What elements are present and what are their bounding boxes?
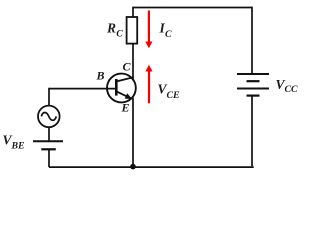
- battery VCC short plate 1: [247, 80, 260, 82]
- transistor Q1 emitter arrowhead: [125, 93, 133, 99]
- wire top horizontal: [133, 7, 252, 9]
- svg-text:C: C: [123, 60, 132, 74]
- AC source V1 circle: [38, 106, 60, 128]
- battery VCC short plate 2: [247, 94, 260, 96]
- junction dot: [130, 164, 136, 170]
- arrow IC (red, down): [148, 11, 150, 43]
- wire right lower vertical: [251, 96, 253, 167]
- battery VBE short plate: [41, 148, 56, 150]
- transistor Q1 collector stroke: [117, 77, 134, 81]
- wire right upper vertical: [251, 7, 253, 74]
- svg-text:C: C: [116, 29, 123, 40]
- wire left lower vertical: [48, 149, 50, 167]
- transistor Q1 emitter stroke: [117, 92, 132, 99]
- wire left mid vertical: [48, 127, 50, 141]
- resistor RC: [127, 17, 138, 44]
- svg-text:C: C: [165, 29, 172, 40]
- wire base horizontal: [49, 88, 117, 90]
- svg-text:CC: CC: [285, 84, 299, 95]
- svg-text:B: B: [96, 69, 105, 83]
- battery VCC long plate 2: [237, 88, 269, 90]
- transistor Q1 base bar: [115, 79, 118, 96]
- transistor Q1 circle: [107, 74, 136, 103]
- svg-text:R: R: [106, 21, 116, 36]
- wire collector vertical: [132, 44, 134, 79]
- battery VCC long plate 1: [237, 73, 269, 75]
- battery VBE long plate: [33, 140, 63, 142]
- arrow VCE (red, up): [148, 71, 150, 104]
- wire bottom horizontal: [49, 165, 253, 168]
- svg-text:E: E: [121, 101, 130, 115]
- svg-text:CE: CE: [167, 90, 181, 101]
- svg-text:BE: BE: [11, 141, 26, 152]
- wire collector into transistor: [132, 77, 134, 80]
- wire left upper vertical: [48, 88, 50, 106]
- wire collector top stub: [132, 7, 134, 17]
- wire emitter vertical: [132, 98, 134, 167]
- AC source sine wave: [41, 113, 56, 121]
